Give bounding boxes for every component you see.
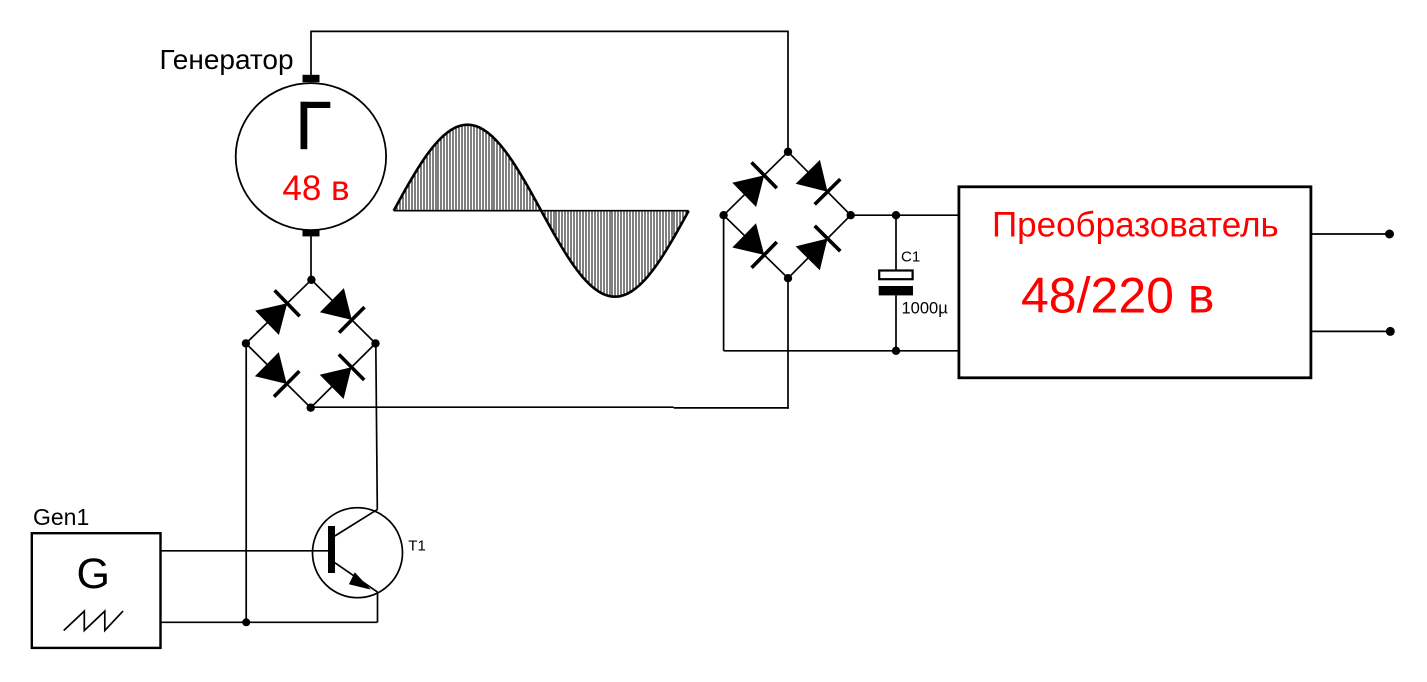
capacitor C1 plates xyxy=(879,271,913,296)
junction: common rail xyxy=(242,618,250,626)
bridge B1 arm left-top xyxy=(246,280,312,344)
wire: lower horizontal to bridge2 bottom riser (segment 2) xyxy=(674,407,789,409)
bridge B1 arm left-bottom xyxy=(246,343,311,407)
diode D3 (bridge1 left-bottom) xyxy=(255,352,300,397)
wire: T1 emitter down xyxy=(377,592,379,622)
diode D6 (bridge2 top-right) xyxy=(796,160,841,205)
generator Г symbol xyxy=(301,102,331,149)
wire: output top xyxy=(1311,233,1390,235)
junction: C1 top xyxy=(892,211,900,219)
node: bridge1 left xyxy=(242,339,250,347)
wire: T1 collector xyxy=(335,509,378,536)
svg-text:G: G xyxy=(77,550,110,598)
svg-text:48 в: 48 в xyxy=(282,169,349,208)
wire: Gen1 common to T1 emitter xyxy=(161,621,378,623)
wire: output bottom xyxy=(1311,330,1390,332)
bridge B2 arm top-right xyxy=(788,152,851,215)
wire: capacitor bottom lead xyxy=(895,295,897,350)
junction: C1 bottom xyxy=(892,347,900,355)
wire: down to right bridge top node xyxy=(787,31,789,152)
wire: bridge2 left node down xyxy=(723,215,725,351)
transistor T1 base bar xyxy=(328,526,335,573)
bridge B2 arm bottom-right xyxy=(788,215,851,278)
diode D2 (bridge1 top-right) xyxy=(320,288,365,333)
terminal: output top xyxy=(1385,230,1394,239)
diode D8 (bridge2 bottom-right) xyxy=(796,226,841,270)
T1 emitter with arrow xyxy=(335,563,378,592)
node: bridge1 right xyxy=(371,339,379,347)
diode D7 (bridge2 left-bottom) xyxy=(732,223,777,268)
node: bridge1 bottom xyxy=(307,404,315,412)
wire: Gen1 output to T1 base xyxy=(161,550,329,552)
bridge B2 arm left-top xyxy=(724,152,788,215)
converter box U1 xyxy=(959,187,1311,378)
svg-text:Преобразователь: Преобразователь xyxy=(992,206,1279,245)
node: bridge2 left xyxy=(719,211,727,219)
svg-text:Gen1: Gen1 xyxy=(33,504,89,530)
wire: generator bottom terminal to bridge 1 top xyxy=(310,236,312,280)
svg-text:1000µ: 1000µ xyxy=(902,300,949,318)
transistor T1 circle xyxy=(313,508,403,598)
sine waveform illustration (hatched) xyxy=(394,120,689,300)
bridge B2 arm left-bottom xyxy=(724,215,788,278)
svg-text:C1: C1 xyxy=(901,248,920,265)
diode D1 (bridge1 left-top) xyxy=(255,290,300,335)
node: bridge2 right xyxy=(847,211,855,219)
wire: positive rail to converter box xyxy=(851,214,959,216)
wire: negative rail to converter box xyxy=(724,350,959,352)
wire: lower horizontal from bridge1 bottom (segment 1) xyxy=(311,406,674,408)
wire: bridge1 left node down to common rail xyxy=(245,343,247,622)
sawtooth symbol xyxy=(64,611,123,630)
svg-text:T1: T1 xyxy=(408,538,426,555)
svg-text:48/220 в: 48/220 в xyxy=(1021,268,1214,324)
diode D4 (bridge1 bottom-right) xyxy=(320,354,365,399)
wire: capacitor top lead xyxy=(895,215,897,271)
wire: top horizontal from generator + to right bridge xyxy=(311,30,788,32)
bridge B1 arm bottom-right xyxy=(311,343,376,407)
svg-text:Генератор: Генератор xyxy=(160,44,294,75)
sawtooth generator box Gen1 xyxy=(32,533,161,648)
generator G1 terminal top xyxy=(303,75,320,82)
node: bridge2 bottom xyxy=(784,274,792,282)
diode D5 (bridge2 left-top) xyxy=(732,162,777,207)
bridge B1 arm top-right xyxy=(311,280,375,344)
node: bridge2 top xyxy=(784,148,792,156)
node: bridge1 top xyxy=(307,276,315,284)
wire: generator top terminal riser xyxy=(310,31,312,76)
generator G1 terminal bottom xyxy=(303,230,320,237)
wire: bridge2 bottom node down xyxy=(787,278,789,409)
wire: bridge1 right node down to T1 collector xyxy=(376,343,378,509)
terminal: output bottom xyxy=(1386,327,1395,336)
generator G1 circle xyxy=(236,83,386,230)
